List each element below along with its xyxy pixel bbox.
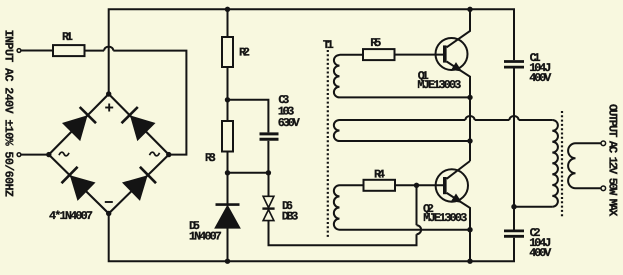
svg-text:T1: T1: [323, 38, 334, 52]
svg-text:R1: R1: [62, 30, 73, 44]
svg-text:4*1N4007: 4*1N4007: [49, 209, 93, 223]
svg-text:INPUT AC 240V ±10% 50/60HZ: INPUT AC 240V ±10% 50/60HZ: [1, 30, 15, 197]
svg-text:MJE13003: MJE13003: [423, 211, 467, 225]
svg-text:400V: 400V: [529, 71, 552, 85]
svg-text:OUTPUT AC 12V 50W MAX: OUTPUT AC 12V 50W MAX: [606, 104, 620, 217]
svg-text:R3: R3: [205, 151, 216, 165]
svg-text:R4: R4: [374, 167, 385, 181]
svg-text:1N4007: 1N4007: [189, 230, 222, 244]
svg-text:MJE13003: MJE13003: [417, 78, 461, 92]
svg-text:R5: R5: [370, 36, 381, 50]
svg-text:DB3: DB3: [282, 209, 299, 223]
svg-text:630V: 630V: [278, 116, 301, 130]
svg-text:400V: 400V: [529, 246, 552, 260]
svg-text:R2: R2: [239, 46, 250, 60]
